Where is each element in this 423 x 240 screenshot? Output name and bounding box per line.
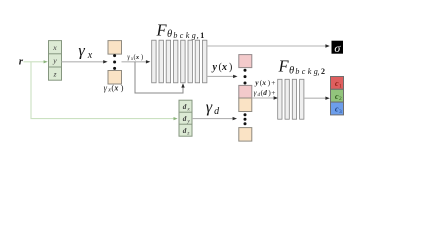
concat dots lower	[244, 113, 247, 125]
svg-text:x: x	[87, 50, 93, 61]
svg-text:2: 2	[321, 67, 325, 76]
wire F2 to c	[304, 97, 330, 100]
svg-text:bckg: bckg	[173, 31, 198, 40]
concat box pink y(x) part	[239, 85, 252, 98]
svg-text:): )	[141, 54, 143, 61]
svg-text:θ: θ	[167, 29, 172, 40]
svg-text:y: y	[52, 56, 57, 65]
wire concat to F2	[252, 96, 278, 99]
position vector box [x,y,z]	[49, 41, 62, 81]
MLP F2 layer bars	[278, 79, 304, 119]
label gamma_x(x) under bottom box	[104, 82, 124, 93]
svg-text:y: y	[186, 119, 190, 125]
output color boxes c1 c2 c3	[331, 77, 344, 115]
label gamma_x(x) small above wire	[127, 54, 143, 62]
gamma_x encoding bottom box	[108, 71, 122, 85]
svg-text:x: x	[113, 83, 118, 92]
svg-text:F: F	[278, 57, 290, 76]
concat box peach gamma_d part	[239, 98, 252, 112]
svg-text:d: d	[183, 127, 187, 135]
label gamma_x (large)	[78, 42, 92, 61]
svg-text:): )	[121, 82, 124, 92]
svg-text:γ: γ	[127, 54, 130, 61]
y(x) feature top box (pink)	[239, 55, 252, 68]
MLP F1 layer bars	[152, 40, 207, 83]
svg-text:3: 3	[339, 109, 342, 115]
wire r branch down to d row (green)	[31, 62, 178, 120]
svg-text:2: 2	[339, 96, 342, 102]
gamma_x encoding top box	[108, 41, 122, 55]
svg-text:1: 1	[339, 83, 342, 89]
svg-text:y: y	[254, 78, 259, 87]
svg-text:x: x	[186, 107, 190, 113]
wire xyz to gamma_x dots	[62, 60, 108, 63]
svg-text:d: d	[183, 115, 187, 123]
svg-text:θ: θ	[289, 65, 294, 76]
svg-text:r: r	[19, 55, 24, 67]
label y(x) bold	[212, 62, 233, 73]
svg-text:d: d	[183, 103, 187, 111]
gamma_d bottom box (peach)	[239, 128, 252, 142]
direction vector box [dx,dy,dz]	[179, 100, 192, 136]
sigma output box	[332, 41, 343, 55]
svg-text:+: +	[271, 88, 275, 97]
wire dots to F1	[122, 60, 151, 63]
svg-text:x: x	[135, 54, 140, 61]
label gamma_d(d)+	[254, 88, 276, 98]
svg-text:x: x	[261, 79, 266, 87]
svg-text:z: z	[52, 69, 56, 78]
label F_theta_bckg,1	[156, 21, 205, 41]
wire d to gamma_d dots	[192, 117, 237, 120]
svg-text:γ: γ	[206, 98, 213, 116]
svg-text:F: F	[156, 21, 168, 40]
svg-text:y: y	[212, 62, 218, 73]
svg-text:γ: γ	[78, 42, 85, 60]
svg-text:x: x	[52, 43, 57, 52]
y(x) dots	[244, 69, 247, 85]
svg-text:+: +	[271, 78, 275, 87]
wire r to xyz (green)	[24, 60, 48, 63]
label F_theta_bckg,2	[278, 57, 326, 77]
svg-text:x: x	[221, 62, 227, 73]
svg-text:): )	[229, 62, 232, 73]
svg-text:d: d	[263, 89, 267, 97]
skip connection wire into F1	[135, 62, 185, 93]
svg-text:bckg: bckg	[295, 67, 320, 76]
gamma_x encoding dots	[113, 54, 116, 70]
label gamma_d (large)	[206, 98, 220, 117]
svg-text:1: 1	[200, 31, 204, 40]
svg-text:,: ,	[197, 30, 199, 40]
label y(x)+	[254, 78, 275, 87]
wire F1 to y(x) dots	[207, 75, 238, 78]
wire F1 to sigma	[207, 44, 330, 47]
svg-text:,: ,	[317, 66, 319, 76]
